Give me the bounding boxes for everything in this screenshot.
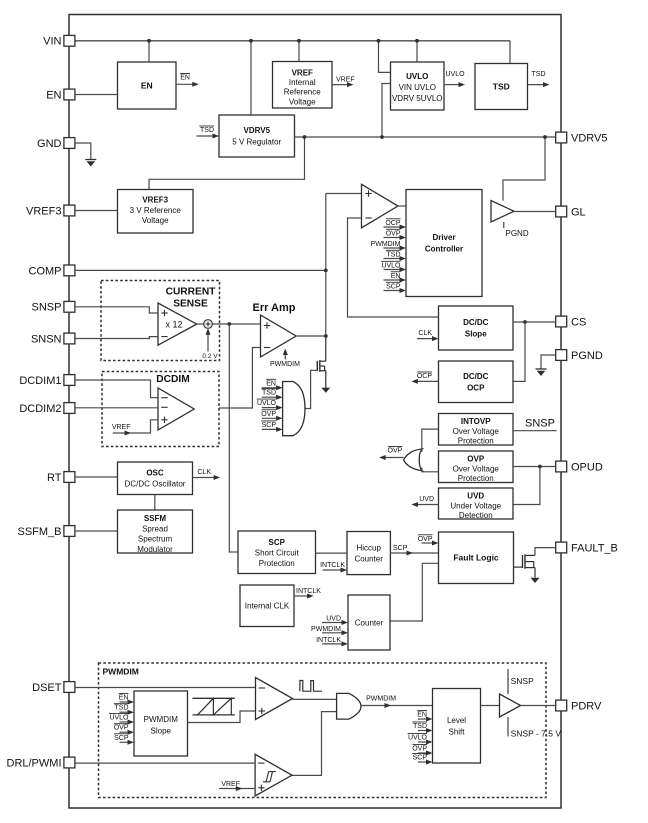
- svg-text:VREF3: VREF3: [142, 196, 168, 205]
- svg-text:UVLO: UVLO: [257, 400, 277, 407]
- svg-text:CLK: CLK: [418, 330, 432, 337]
- svg-text:5 V Regulator: 5 V Regulator: [232, 138, 281, 147]
- svg-text:Voltage: Voltage: [289, 97, 316, 106]
- svg-text:OVP: OVP: [261, 411, 276, 418]
- svg-text:EN: EN: [180, 75, 190, 82]
- svg-text:UVD: UVD: [419, 496, 434, 503]
- svg-text:SENSE: SENSE: [173, 299, 208, 310]
- svg-text:OVP: OVP: [467, 455, 485, 464]
- svg-text:SCP: SCP: [269, 538, 286, 547]
- svg-text:x 12: x 12: [165, 319, 182, 329]
- svg-text:CS: CS: [571, 316, 586, 328]
- svg-text:SNSN: SNSN: [31, 333, 62, 345]
- svg-text:TSD: TSD: [262, 390, 276, 397]
- svg-text:Over Voltage: Over Voltage: [453, 464, 500, 473]
- svg-text:Slope: Slope: [151, 727, 172, 736]
- svg-text:Driver: Driver: [432, 233, 455, 242]
- svg-text:VREF: VREF: [292, 68, 313, 77]
- svg-text:Fault Logic: Fault Logic: [453, 553, 499, 563]
- svg-text:Controller: Controller: [425, 245, 463, 254]
- svg-text:GL: GL: [571, 206, 586, 218]
- svg-text:TSD: TSD: [493, 81, 510, 91]
- svg-text:TSD: TSD: [387, 251, 401, 258]
- svg-text:OVP: OVP: [418, 536, 433, 543]
- svg-text:CURRENT: CURRENT: [166, 287, 217, 298]
- svg-text:Slope: Slope: [465, 330, 487, 339]
- svg-text:SNSP: SNSP: [511, 676, 534, 686]
- svg-text:Over Voltage: Over Voltage: [453, 427, 500, 436]
- svg-text:Protection: Protection: [458, 474, 494, 483]
- svg-text:TSD: TSD: [200, 127, 214, 134]
- svg-text:SNSP: SNSP: [525, 418, 555, 430]
- svg-text:PWMDIM: PWMDIM: [371, 241, 401, 248]
- svg-text:VDRV 5UVLO: VDRV 5UVLO: [392, 94, 443, 103]
- svg-text:Counter: Counter: [355, 618, 384, 627]
- svg-text:PWMDIM: PWMDIM: [103, 667, 139, 677]
- svg-text:DC/DC: DC/DC: [463, 372, 489, 381]
- svg-text:UVLO: UVLO: [381, 262, 401, 269]
- svg-text:EN: EN: [417, 712, 427, 719]
- svg-text:UVLO: UVLO: [109, 715, 129, 722]
- svg-text:VREF: VREF: [221, 781, 240, 788]
- svg-text:PWMDIM: PWMDIM: [270, 361, 300, 368]
- svg-text:TSD: TSD: [532, 71, 546, 78]
- svg-text:Err Amp: Err Amp: [253, 302, 296, 314]
- svg-text:SCP: SCP: [114, 735, 129, 742]
- svg-text:DSET: DSET: [32, 682, 62, 694]
- svg-text:EN: EN: [119, 695, 129, 702]
- svg-text:VREF: VREF: [112, 424, 131, 431]
- svg-text:Hiccup: Hiccup: [356, 543, 381, 552]
- svg-text:VIN UVLO: VIN UVLO: [399, 83, 436, 92]
- svg-text:OCP: OCP: [385, 220, 401, 227]
- svg-text:FAULT_B: FAULT_B: [571, 542, 618, 554]
- svg-text:TSD: TSD: [115, 705, 129, 712]
- svg-text:SSFM: SSFM: [144, 514, 167, 523]
- svg-text:Level: Level: [447, 716, 466, 725]
- svg-text:Protection: Protection: [458, 437, 494, 446]
- svg-text:DC/DC: DC/DC: [463, 318, 489, 327]
- svg-text:OVP: OVP: [412, 746, 427, 753]
- svg-text:VDRV5: VDRV5: [243, 126, 270, 135]
- svg-text:UVLO: UVLO: [446, 71, 466, 78]
- svg-text:3 V Reference: 3 V Reference: [130, 206, 182, 215]
- svg-text:UVLO: UVLO: [406, 72, 428, 81]
- svg-text:Shift: Shift: [448, 727, 465, 736]
- svg-text:DCDIM: DCDIM: [156, 374, 189, 385]
- svg-text:PGND: PGND: [506, 229, 529, 238]
- svg-text:SCP: SCP: [393, 545, 408, 552]
- svg-text:SNSP: SNSP: [32, 302, 62, 314]
- svg-text:EN: EN: [141, 80, 153, 90]
- svg-text:SNSP - 7.5 V: SNSP - 7.5 V: [511, 729, 562, 739]
- svg-text:SSFM_B: SSFM_B: [17, 526, 61, 538]
- svg-text:PWMDIM: PWMDIM: [311, 626, 341, 633]
- svg-text:Modulator: Modulator: [137, 545, 173, 554]
- svg-text:UVD: UVD: [467, 492, 484, 501]
- svg-text:DCDIM1: DCDIM1: [19, 375, 61, 387]
- svg-text:OCP: OCP: [467, 383, 485, 392]
- svg-text:GND: GND: [37, 138, 62, 150]
- svg-text:DCDIM2: DCDIM2: [19, 403, 61, 415]
- svg-text:Spectrum: Spectrum: [138, 535, 173, 544]
- svg-text:Under Voltage: Under Voltage: [450, 501, 501, 510]
- svg-text:PWMDIM: PWMDIM: [144, 715, 179, 724]
- svg-text:INTCLK: INTCLK: [320, 562, 345, 569]
- svg-text:Reference: Reference: [284, 88, 321, 97]
- svg-text:Spread: Spread: [142, 524, 168, 533]
- svg-text:EN: EN: [391, 273, 401, 280]
- svg-text:Internal: Internal: [289, 78, 316, 87]
- svg-text:INTCLK: INTCLK: [316, 637, 341, 644]
- svg-text:VREF3: VREF3: [26, 205, 61, 217]
- svg-text:SCP: SCP: [386, 283, 401, 290]
- svg-text:SCP: SCP: [413, 755, 428, 762]
- svg-text:EN: EN: [266, 380, 276, 387]
- svg-text:SCP: SCP: [262, 422, 277, 429]
- svg-text:OPUD: OPUD: [571, 461, 603, 473]
- svg-text:OCP: OCP: [417, 373, 433, 380]
- svg-text:CLK: CLK: [197, 469, 211, 476]
- svg-text:VIN: VIN: [43, 36, 61, 48]
- svg-text:COMP: COMP: [29, 265, 62, 277]
- svg-text:OVP: OVP: [386, 230, 401, 237]
- svg-text:Detection: Detection: [459, 511, 493, 520]
- svg-text:Protection: Protection: [259, 559, 295, 568]
- svg-text:DRL/PWMI: DRL/PWMI: [7, 757, 62, 769]
- svg-text:RT: RT: [47, 472, 62, 484]
- svg-text:EN: EN: [46, 89, 61, 101]
- svg-text:PDRV: PDRV: [571, 700, 602, 712]
- svg-text:INTOVP: INTOVP: [461, 417, 491, 426]
- svg-text:0.2 V: 0.2 V: [202, 353, 218, 360]
- svg-text:VREF: VREF: [336, 77, 355, 84]
- svg-text:Voltage: Voltage: [142, 216, 169, 225]
- svg-text:Counter: Counter: [354, 554, 383, 563]
- svg-text:TSD: TSD: [413, 723, 427, 730]
- svg-text:INTCLK: INTCLK: [296, 588, 321, 595]
- svg-text:PGND: PGND: [571, 350, 603, 362]
- svg-text:UVD: UVD: [326, 616, 341, 623]
- svg-text:Short Circuit: Short Circuit: [255, 548, 300, 557]
- svg-text:OVP: OVP: [114, 725, 129, 732]
- svg-text:OVP: OVP: [388, 448, 403, 455]
- svg-text:OSC: OSC: [146, 469, 164, 478]
- svg-text:Internal CLK: Internal CLK: [245, 602, 290, 611]
- svg-text:DC/DC Oscillator: DC/DC Oscillator: [125, 480, 186, 489]
- svg-text:PWMDIM: PWMDIM: [366, 695, 396, 702]
- svg-text:VDRV5: VDRV5: [571, 132, 607, 144]
- svg-text:UVLO: UVLO: [408, 735, 428, 742]
